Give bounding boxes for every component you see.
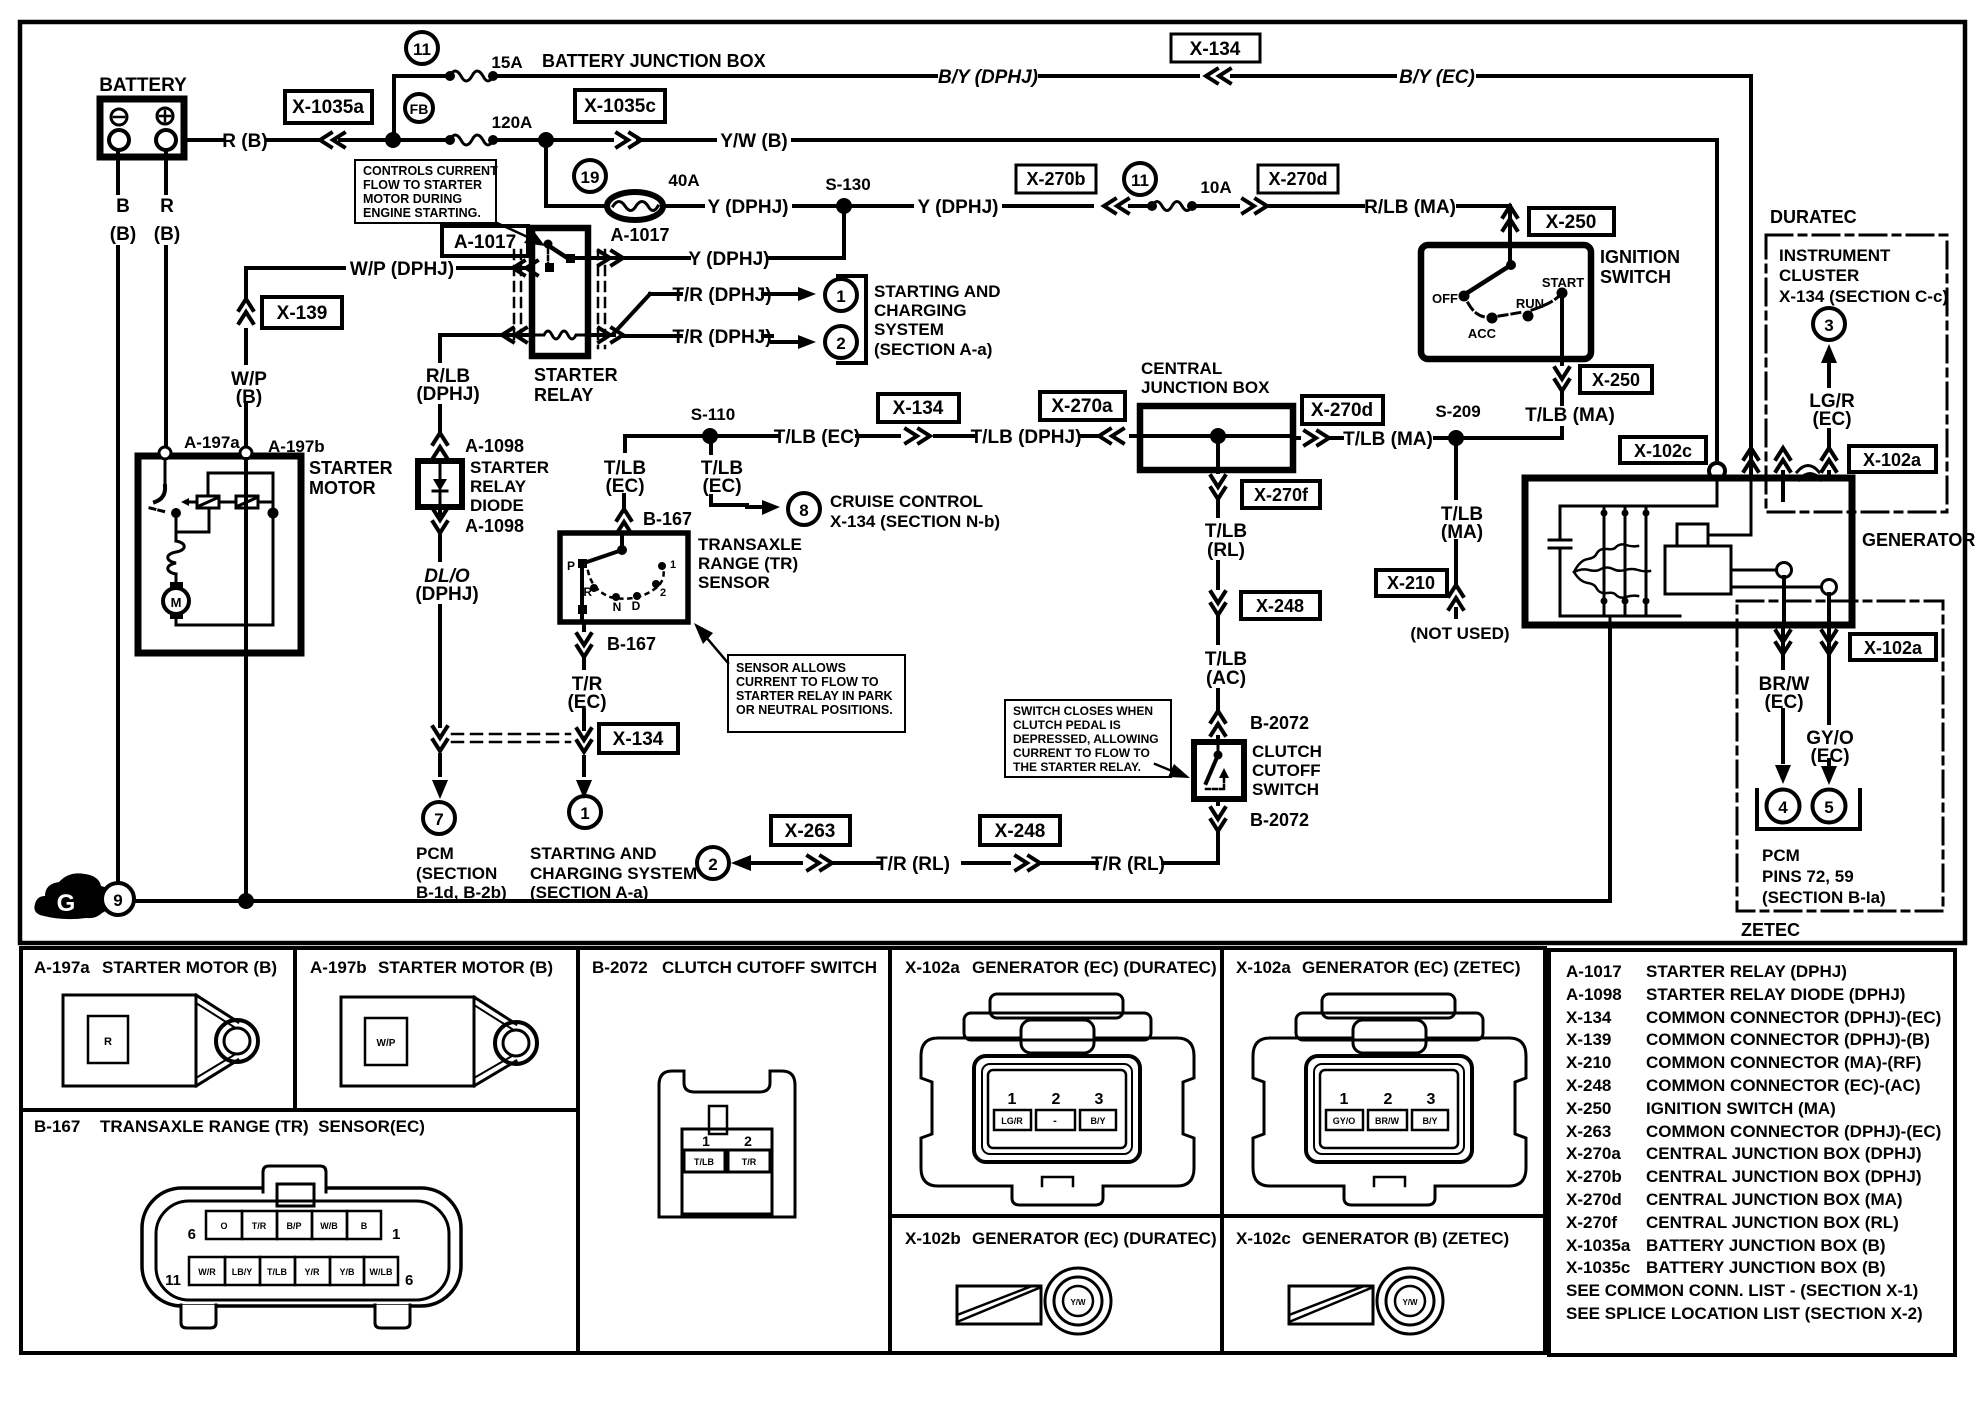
- svg-text:BATTERY JUNCTION BOX (B): BATTERY JUNCTION BOX (B): [1646, 1236, 1886, 1255]
- svg-text:X-270a: X-270a: [1051, 396, 1113, 417]
- wire T/R (DPHJ) upper to circle 1: [592, 285, 816, 342]
- wire 120A to Y/W junction: [398, 138, 540, 142]
- svg-text:(DPHJ): (DPHJ): [416, 384, 479, 405]
- connector boundary dashes at relay (A-1017): [514, 250, 605, 348]
- connector label box X-210: [1376, 570, 1447, 596]
- svg-text:T/LB: T/LB: [267, 1267, 287, 1277]
- svg-text:(EC): (EC): [1764, 692, 1803, 713]
- svg-text:Y (DPHJ): Y (DPHJ): [708, 197, 789, 218]
- svg-text:MOTOR DURING: MOTOR DURING: [363, 192, 462, 206]
- generator box: [1525, 478, 1852, 625]
- node circled 3 instrument cluster: [1813, 308, 1845, 340]
- svg-text:X-134 (SECTION C-c): X-134 (SECTION C-c): [1779, 287, 1948, 306]
- svg-text:THE STARTER RELAY.: THE STARTER RELAY.: [1013, 760, 1141, 774]
- svg-text:X-210: X-210: [1566, 1053, 1611, 1072]
- svg-text:X-248: X-248: [995, 821, 1046, 842]
- svg-text:DURATEC: DURATEC: [1770, 207, 1857, 227]
- label STARTING AND CHARGING SYSTEM (SECTION A-a) bottom: [530, 844, 697, 902]
- svg-text:(EC): (EC): [1812, 409, 1851, 430]
- svg-text:RUN: RUN: [1516, 296, 1544, 311]
- svg-text:W/B: W/B: [320, 1221, 338, 1231]
- svg-text:11: 11: [413, 40, 431, 59]
- connector drawing A-197a ring lug: [63, 995, 258, 1086]
- terminal open circle generator I: [1777, 563, 1792, 578]
- battery BATTERY: [99, 75, 187, 157]
- node circled 4 PCM pin: [1767, 790, 1800, 823]
- panel box X-102b: [890, 1216, 1222, 1353]
- svg-text:X-134: X-134: [613, 729, 664, 750]
- svg-text:BATTERY JUNCTION BOX: BATTERY JUNCTION BOX: [542, 51, 766, 71]
- panel box B-2072: [578, 948, 890, 1353]
- svg-text:T/R (RL): T/R (RL): [1091, 854, 1165, 875]
- legend list: [1566, 962, 1941, 1323]
- svg-text:(AC): (AC): [1206, 668, 1246, 689]
- svg-text:-: -: [1053, 1115, 1057, 1127]
- svg-text:Y/B: Y/B: [339, 1267, 355, 1277]
- svg-text:X-250: X-250: [1566, 1099, 1611, 1118]
- svg-text:2: 2: [836, 334, 845, 353]
- label CLUTCH CUTOFF SWITCH: [1252, 742, 1322, 799]
- connector label box X-102a (lower): [1850, 634, 1936, 660]
- svg-text:A-197b: A-197b: [310, 958, 367, 977]
- wire up to 15A fuse line: [394, 76, 444, 140]
- svg-text:STARTER: STARTER: [470, 458, 549, 477]
- wire DL/O (DPHJ) diode to PCM: [415, 507, 478, 799]
- svg-text:Y (DPHJ): Y (DPHJ): [689, 249, 770, 270]
- svg-text:STARTER: STARTER: [534, 365, 618, 385]
- svg-text:SYSTEM: SYSTEM: [874, 320, 944, 339]
- svg-text:P: P: [567, 559, 575, 573]
- svg-text:A-197a: A-197a: [184, 433, 240, 452]
- ignition switch X-250 chevrons: [1503, 206, 1517, 230]
- svg-text:IGNITION: IGNITION: [1600, 247, 1680, 267]
- svg-text:B: B: [361, 1221, 368, 1231]
- svg-text:R: R: [104, 1036, 112, 1048]
- node junction Y/W feed: [538, 132, 554, 148]
- svg-text:(NOT USED): (NOT USED): [1410, 624, 1509, 643]
- svg-text:ACC: ACC: [1468, 326, 1497, 341]
- svg-text:CRUISE CONTROL: CRUISE CONTROL: [830, 492, 983, 511]
- svg-text:COMMON CONNECTOR (MA)-(RF): COMMON CONNECTOR (MA)-(RF): [1646, 1053, 1921, 1072]
- wire R (B) from battery to junction: [184, 131, 388, 152]
- transaxle range sensor B-167: [560, 533, 688, 622]
- connector label box X-248 (lower): [980, 816, 1060, 845]
- connector label box X-102a (upper): [1849, 446, 1936, 472]
- node circled 2 (to starting and charging): [825, 326, 857, 358]
- panel box X-102c: [1222, 1216, 1545, 1353]
- label INSTRUMENT CLUSTER X-134 (SECTION C-c): [1779, 246, 1948, 306]
- svg-text:X-102a: X-102a: [1863, 450, 1922, 470]
- panel box X-102a DURATEC: [890, 948, 1222, 1216]
- svg-text:B-167: B-167: [643, 509, 692, 529]
- connector pin stub X-102a center: [1776, 448, 1821, 500]
- svg-text:T/LB: T/LB: [1205, 649, 1247, 670]
- svg-text:4: 4: [1778, 798, 1788, 817]
- wire BR/W (EC) generator to PCM 4: [1759, 577, 1810, 784]
- wire W/P (DPHJ) into starter relay: [246, 259, 537, 280]
- svg-text:W/P: W/P: [377, 1038, 396, 1049]
- svg-text:RELAY: RELAY: [534, 385, 593, 405]
- wire T/LB (MA) ignition switch to S-209: [1462, 359, 1615, 438]
- svg-text:T/R: T/R: [252, 1221, 267, 1231]
- svg-text:W/R: W/R: [198, 1267, 216, 1277]
- svg-text:CURRENT TO FLOW TO: CURRENT TO FLOW TO: [1013, 746, 1150, 760]
- node circled 2 (bottom): [697, 847, 729, 879]
- connector label box X-248 (upper): [1241, 592, 1320, 619]
- svg-text:A-1098: A-1098: [465, 516, 524, 536]
- connector label box X-270a: [1040, 392, 1125, 420]
- terminal open circle A-197a: [159, 447, 171, 459]
- svg-text:N: N: [613, 600, 622, 614]
- svg-text:Y/R: Y/R: [304, 1267, 320, 1277]
- svg-text:7: 7: [434, 810, 443, 829]
- svg-text:T/LB (MA): T/LB (MA): [1343, 429, 1433, 450]
- connector label box X-270b: [1016, 165, 1096, 193]
- svg-text:CLUTCH: CLUTCH: [1252, 742, 1322, 761]
- wire down from Y/W junction to 40A fuse: [546, 140, 606, 206]
- svg-text:SWITCH: SWITCH: [1600, 267, 1671, 287]
- svg-text:T/LB (DPHJ): T/LB (DPHJ): [971, 427, 1082, 448]
- svg-text:LG/R: LG/R: [1001, 1116, 1023, 1126]
- svg-text:(EC): (EC): [1810, 746, 1849, 767]
- svg-text:STARTER RELAY IN PARK: STARTER RELAY IN PARK: [736, 689, 893, 703]
- svg-text:JUNCTION BOX: JUNCTION BOX: [1141, 378, 1270, 397]
- wire T/LB (MA) CJB to S-209: [1293, 429, 1560, 450]
- svg-text:STARTING AND: STARTING AND: [874, 282, 1001, 301]
- label STARTING AND CHARGING SYSTEM (SECTION A-a): [874, 282, 1001, 359]
- svg-text:S-130: S-130: [825, 175, 870, 194]
- svg-text:SENSOR ALLOWS: SENSOR ALLOWS: [736, 661, 846, 675]
- node junction on ground bus: [238, 893, 254, 909]
- svg-text:X-1035c: X-1035c: [1566, 1258, 1630, 1277]
- svg-text:1: 1: [702, 1133, 710, 1149]
- wire T/LB (MA) S-209 down to X-210 (NOT USED): [1410, 445, 1509, 643]
- svg-text:CENTRAL: CENTRAL: [1141, 359, 1222, 378]
- wire T/R (RL) clutch switch down to bottom run: [1163, 799, 1309, 863]
- svg-text:(DPHJ): (DPHJ): [415, 584, 478, 605]
- svg-text:1: 1: [392, 1226, 400, 1243]
- node circled 1 (starting and charging): [569, 796, 601, 828]
- svg-text:X-102a: X-102a: [1236, 958, 1291, 977]
- svg-text:S-209: S-209: [1435, 402, 1480, 421]
- connector label box X-250 (lower): [1580, 366, 1652, 393]
- boundary box DURATEC (dash-dot): [1766, 235, 1947, 512]
- starter motor internals: solenoid contact, coil, motor M: [150, 459, 279, 625]
- svg-text:G: G: [57, 890, 76, 917]
- svg-text:COMMON CONNECTOR (DPHJ)-(B): COMMON CONNECTOR (DPHJ)-(B): [1646, 1030, 1930, 1049]
- svg-text:CHARGING: CHARGING: [874, 301, 967, 320]
- svg-text:GENERATOR (EC) (DURATEC): GENERATOR (EC) (DURATEC): [972, 1229, 1217, 1248]
- svg-text:R: R: [583, 585, 592, 599]
- svg-text:SWITCH: SWITCH: [1252, 780, 1319, 799]
- svg-text:CHARGING SYSTEM: CHARGING SYSTEM: [530, 864, 697, 883]
- connector label box X-134 (top): [1171, 34, 1260, 62]
- svg-text:T/LB: T/LB: [694, 1157, 714, 1167]
- svg-text:B/Y (EC): B/Y (EC): [1399, 67, 1475, 88]
- svg-text:3: 3: [1095, 1091, 1104, 1108]
- wire Y/W (B) to generator: [553, 131, 1717, 463]
- svg-text:X-263: X-263: [785, 821, 836, 842]
- wire T/R (DPHJ) lower to circle 2: [623, 327, 816, 349]
- svg-text:COMMON CONNECTOR (DPHJ)-(EC): COMMON CONNECTOR (DPHJ)-(EC): [1646, 1122, 1941, 1141]
- svg-text:1: 1: [836, 287, 845, 306]
- bracket beside circles 1 and 2: [838, 276, 866, 363]
- svg-text:X-1035a: X-1035a: [292, 97, 364, 118]
- svg-text:GENERATOR (EC) (ZETEC): GENERATOR (EC) (ZETEC): [1302, 958, 1520, 977]
- svg-text:15A: 15A: [491, 53, 522, 72]
- connector label box X-250 (upper): [1529, 208, 1614, 235]
- svg-text:X-270d: X-270d: [1268, 169, 1327, 189]
- svg-text:T/R (RL): T/R (RL): [876, 854, 950, 875]
- svg-text:Y (DPHJ): Y (DPHJ): [918, 197, 999, 218]
- connector label box X-1035c: [575, 90, 665, 122]
- svg-text:GENERATOR (EC) (DURATEC): GENERATOR (EC) (DURATEC): [972, 958, 1217, 977]
- connector drawing X-102c ring terminal: [1289, 1268, 1443, 1334]
- wire Y (DPHJ) S-130 to 10A fuse: [850, 197, 1128, 218]
- svg-text:B: B: [116, 196, 130, 217]
- svg-text:X-263: X-263: [1566, 1122, 1611, 1141]
- svg-text:D: D: [632, 599, 641, 613]
- wire R/LB (MA) to ignition switch: [1197, 197, 1510, 244]
- connector label box X-134 (mid row): [878, 394, 959, 422]
- svg-text:RANGE (TR): RANGE (TR): [698, 554, 798, 573]
- svg-text:19: 19: [581, 168, 600, 187]
- svg-text:B-2072: B-2072: [1250, 810, 1309, 830]
- node splice S-110: [702, 428, 718, 444]
- node circled 11 (10A fuse id): [1124, 163, 1156, 195]
- connector label box X-270f: [1242, 481, 1320, 508]
- svg-text:X-102a: X-102a: [905, 958, 960, 977]
- svg-text:(RL): (RL): [1207, 540, 1245, 561]
- svg-text:BATTERY JUNCTION BOX (B): BATTERY JUNCTION BOX (B): [1646, 1258, 1886, 1277]
- diode A-1098 starter relay diode: [418, 433, 549, 536]
- svg-text:X-250: X-250: [1592, 370, 1640, 390]
- panel box A-197a: [21, 948, 295, 1110]
- svg-text:B-167: B-167: [34, 1117, 80, 1136]
- panel box A-197b: [295, 948, 578, 1110]
- bracket under PCM pins: [1757, 790, 1860, 829]
- svg-text:X-102a: X-102a: [1864, 638, 1923, 658]
- svg-text:(SECTION A-a): (SECTION A-a): [874, 340, 992, 359]
- svg-text:IGNITION SWITCH (MA): IGNITION SWITCH (MA): [1646, 1099, 1836, 1118]
- svg-text:DEPRESSED, ALLOWING: DEPRESSED, ALLOWING: [1013, 732, 1159, 746]
- svg-text:PCM: PCM: [416, 844, 454, 863]
- svg-text:W/P (DPHJ): W/P (DPHJ): [350, 259, 454, 280]
- svg-text:11: 11: [165, 1272, 181, 1289]
- svg-text:1: 1: [1340, 1091, 1349, 1108]
- svg-text:OR NEUTRAL POSITIONS.: OR NEUTRAL POSITIONS.: [736, 703, 893, 717]
- svg-text:(SECTION: (SECTION: [416, 864, 497, 883]
- connector drawing X-102b ring terminal: [957, 1268, 1111, 1334]
- svg-text:B/P: B/P: [286, 1221, 301, 1231]
- ground bus wire: [134, 899, 1610, 903]
- connector drawing B-167: [142, 1166, 461, 1328]
- node circled 11 (top fuse id): [406, 32, 438, 64]
- svg-text:SENSOR: SENSOR: [698, 573, 770, 592]
- svg-text:6: 6: [188, 1226, 196, 1243]
- svg-text:T/R (DPHJ): T/R (DPHJ): [672, 327, 771, 348]
- svg-text:LB/Y: LB/Y: [232, 1267, 253, 1277]
- svg-text:CURRENT TO FLOW TO: CURRENT TO FLOW TO: [736, 675, 879, 689]
- svg-text:X-134: X-134: [1190, 39, 1241, 60]
- label PCM (SECTION B-1d, B-2b): [416, 844, 507, 902]
- svg-text:X-102c: X-102c: [1236, 1229, 1291, 1248]
- connector drawing B-2072: [659, 1071, 795, 1217]
- connector label box X-270d (upper): [1258, 165, 1338, 193]
- svg-text:T/LB (EC): T/LB (EC): [774, 427, 861, 448]
- svg-text:STARTER: STARTER: [309, 458, 393, 478]
- svg-text:X-102c: X-102c: [1634, 441, 1692, 461]
- svg-text:COMMON CONNECTOR (EC)-(AC): COMMON CONNECTOR (EC)-(AC): [1646, 1076, 1921, 1095]
- note box CONTROLS CURRENT: [355, 160, 545, 246]
- svg-text:R/LB (MA): R/LB (MA): [1364, 197, 1456, 218]
- wire T/LB (DPHJ) into central junction box: [971, 427, 1140, 448]
- node circled 9 ground: [102, 883, 134, 915]
- svg-text:CENTRAL JUNCTION BOX (RL): CENTRAL JUNCTION BOX (RL): [1646, 1213, 1899, 1232]
- svg-text:COMMON CONNECTOR (DPHJ)-(EC): COMMON CONNECTOR (DPHJ)-(EC): [1646, 1008, 1941, 1027]
- connector crossing X-134 dashed link: [452, 734, 570, 742]
- svg-text:CLUTCH CUTOFF SWITCH: CLUTCH CUTOFF SWITCH: [662, 958, 877, 977]
- svg-text:SEE SPLICE LOCATION LIST (SECT: SEE SPLICE LOCATION LIST (SECTION X-2): [1566, 1304, 1923, 1323]
- svg-text:SEE COMMON CONN. LIST - (SECTI: SEE COMMON CONN. LIST - (SECTION X-1): [1566, 1281, 1918, 1300]
- svg-text:FB: FB: [410, 101, 429, 117]
- label STARTER MOTOR: [309, 458, 393, 498]
- svg-text:TRANSAXLE: TRANSAXLE: [698, 535, 802, 554]
- terminal open circle generator S: [1822, 580, 1837, 595]
- svg-text:CENTRAL JUNCTION BOX (DPHJ): CENTRAL JUNCTION BOX (DPHJ): [1646, 1167, 1921, 1186]
- svg-text:2: 2: [708, 855, 717, 874]
- boundary box ZETEC (dash-dot): [1737, 601, 1943, 911]
- svg-text:R (B): R (B): [222, 131, 267, 152]
- svg-text:X-270b: X-270b: [1566, 1167, 1622, 1186]
- svg-text:T/LB: T/LB: [1205, 521, 1247, 542]
- wire T/LB (EC) cruise branch: [701, 443, 780, 515]
- fuse 40A A-1017: [607, 171, 700, 245]
- switch ignition switch: [1421, 245, 1591, 359]
- panel titles: [34, 958, 1520, 1248]
- svg-text:BATTERY: BATTERY: [99, 75, 187, 96]
- connector label box X-263: [771, 816, 850, 845]
- wire T/LB (RL): [1205, 521, 1247, 643]
- svg-text:DIODE: DIODE: [470, 496, 524, 515]
- svg-text:PCM: PCM: [1762, 846, 1800, 865]
- note box SENSOR ALLOWS: [694, 623, 905, 732]
- svg-text:RELAY: RELAY: [470, 477, 527, 496]
- connector drawing A-197b ring lug: [341, 997, 537, 1086]
- svg-text:(EC): (EC): [605, 476, 644, 497]
- svg-text:X-134: X-134: [893, 398, 944, 419]
- svg-text:STARTING AND: STARTING AND: [530, 844, 657, 863]
- svg-text:X-270d: X-270d: [1566, 1190, 1622, 1209]
- fuse 10A: [1130, 178, 1232, 211]
- fuse 120A: [445, 113, 532, 145]
- svg-text:O: O: [220, 1221, 227, 1231]
- svg-text:BR/W: BR/W: [1375, 1116, 1399, 1126]
- svg-text:2: 2: [1384, 1091, 1393, 1108]
- wire generator ground to bus: [1608, 625, 1612, 901]
- svg-text:X-134 (SECTION N-b): X-134 (SECTION N-b): [830, 512, 1000, 531]
- svg-text:8: 8: [799, 501, 808, 520]
- svg-text:A-1017: A-1017: [610, 225, 669, 245]
- terminal open circle A-197b: [240, 447, 252, 459]
- svg-text:A-197a: A-197a: [34, 958, 90, 977]
- svg-text:10A: 10A: [1200, 178, 1231, 197]
- wire Y (DPHJ) relay output to S-130: [592, 213, 844, 270]
- svg-text:GY/O: GY/O: [1333, 1116, 1356, 1126]
- svg-text:T/R: T/R: [742, 1157, 757, 1167]
- svg-text:CLUTCH PEDAL IS: CLUTCH PEDAL IS: [1013, 718, 1121, 732]
- svg-text:(EC): (EC): [702, 476, 741, 497]
- connector label box X-134 (TR column): [599, 724, 678, 753]
- svg-text:R: R: [160, 196, 174, 217]
- svg-text:1: 1: [670, 559, 676, 571]
- svg-text:2: 2: [660, 587, 666, 599]
- wire Y (DPHJ) 40A fuse to S-130: [663, 197, 838, 218]
- fuse 15A: [445, 53, 523, 81]
- svg-text:11: 11: [1131, 171, 1149, 190]
- svg-text:MOTOR: MOTOR: [309, 478, 376, 498]
- svg-text:W/LB: W/LB: [370, 1267, 393, 1277]
- node circled FB: [405, 94, 433, 122]
- node junction at battery feed: [385, 132, 401, 148]
- svg-text:2: 2: [744, 1133, 752, 1149]
- wire T/R (RL) bottom run to circle 2: [731, 854, 1165, 875]
- panel box B-167: [21, 1110, 578, 1353]
- wire GY/O (EC) generator to PCM 5: [1806, 594, 1854, 785]
- wire W/P (B) down to starter motor: [231, 268, 267, 448]
- generator internals: bus, capacitor, rectifier diodes, windings, regulator: [1549, 478, 1821, 625]
- svg-text:X-1035a: X-1035a: [1566, 1236, 1631, 1255]
- svg-text:Y/W: Y/W: [1402, 1298, 1418, 1307]
- central junction box: [1140, 359, 1293, 470]
- label IGNITION SWITCH: [1600, 247, 1680, 287]
- svg-text:A-1017: A-1017: [1566, 962, 1622, 981]
- svg-text:X-139: X-139: [1566, 1030, 1611, 1049]
- svg-text:X-250: X-250: [1546, 212, 1597, 233]
- svg-text:3: 3: [1427, 1091, 1436, 1108]
- connector label box X-1035a: [285, 91, 372, 123]
- svg-text:(B): (B): [110, 224, 136, 245]
- main diagram border frame: [20, 22, 1965, 943]
- panel box legend: [1549, 950, 1955, 1355]
- switch B-2072 clutch cutoff switch: [1194, 742, 1244, 799]
- svg-text:ENGINE STARTING.: ENGINE STARTING.: [363, 206, 481, 220]
- wire CJB down branch X-270f: [1211, 442, 1225, 516]
- node splice S-130: [836, 198, 852, 214]
- svg-text:3: 3: [1824, 316, 1833, 335]
- wire T/LB (AC) to clutch switch: [1205, 649, 1309, 742]
- node circled 8 cruise control: [788, 493, 820, 525]
- wire B/Y (EC) into generator: [1744, 448, 1758, 478]
- relay A-1017 starter relay: [532, 228, 588, 356]
- panel box X-102a ZETEC: [1222, 948, 1545, 1216]
- connector label box X-139: [262, 297, 342, 328]
- wire A-197b through starter motor to ground: [244, 459, 248, 895]
- svg-text:B-2072: B-2072: [592, 958, 648, 977]
- svg-text:B/Y: B/Y: [1422, 1116, 1437, 1126]
- label TRANSAXLE RANGE (TR) SENSOR: [698, 535, 802, 592]
- svg-text:2: 2: [1052, 1091, 1061, 1108]
- node circled 19: [574, 160, 606, 192]
- svg-text:X-139: X-139: [277, 303, 328, 324]
- label PCM PINS 72, 59 (SECTION B-Ia): [1762, 846, 1886, 907]
- svg-text:1: 1: [580, 804, 589, 823]
- svg-text:SWITCH CLOSES WHEN: SWITCH CLOSES WHEN: [1013, 704, 1153, 718]
- wire R/LB (DPHJ) relay coil to diode: [416, 328, 532, 431]
- svg-text:1: 1: [1008, 1091, 1017, 1108]
- svg-text:(B): (B): [154, 224, 180, 245]
- svg-text:FLOW TO STARTER: FLOW TO STARTER: [363, 178, 482, 192]
